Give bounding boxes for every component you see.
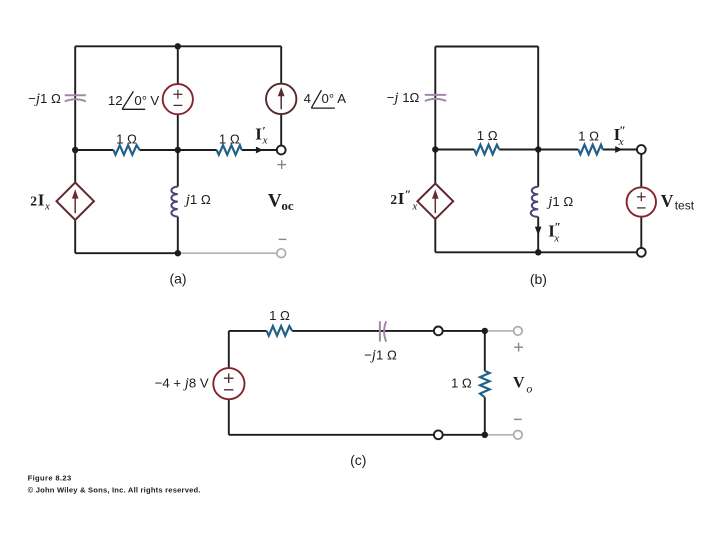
svg-text:1 Ω: 1 Ω — [451, 376, 472, 391]
label Ix'' below inductor (b) — [548, 219, 561, 244]
label j1 ohm (b) — [546, 194, 573, 210]
node dot mid middle (b) — [535, 146, 541, 152]
wire top row (c) — [229, 330, 485, 332]
wire middle vertical (b) — [535, 47, 542, 253]
label Ix' (a) — [255, 123, 267, 146]
terminal open circle top right (b) — [637, 145, 646, 154]
wire top (b) — [435, 46, 538, 48]
wire top (a) — [75, 45, 281, 47]
svg-text:x: x — [553, 232, 559, 244]
inductor j1 ohm (b) — [531, 187, 538, 217]
voltage source -4+j8 V (c) — [213, 368, 244, 399]
wire left vertical (b) — [434, 47, 436, 253]
terminal open circle bottom right (b) — [637, 248, 646, 257]
wire right vertical (a) — [280, 46, 282, 145]
node dot top right (c) — [482, 328, 488, 334]
label -4+j8 V (c) — [155, 376, 209, 392]
label Vtest (b) — [661, 191, 695, 213]
wire bottom gray (a) — [178, 252, 277, 254]
label Vo (c) — [513, 375, 532, 396]
inductor j1 ohm (a) — [171, 187, 177, 217]
resistor 1 ohm left (a) — [113, 145, 139, 155]
terminal node open circle (a) — [277, 146, 286, 155]
wire bottom (b) — [435, 251, 637, 253]
svg-text:© John Wiley & Sons, Inc. All: © John Wiley & Sons, Inc. All rights res… — [28, 485, 201, 494]
svg-text:−j 1Ω: −j 1Ω — [387, 90, 420, 106]
svg-text:4: 4 — [304, 91, 311, 106]
label 2Ix'' (b) — [390, 187, 417, 212]
wire left vertical (c) — [228, 331, 230, 435]
label 2Ix (a) — [30, 191, 50, 213]
node dot top middle (a) — [175, 43, 181, 49]
voltage source Vtest (b) — [627, 187, 656, 216]
svg-text:(b): (b) — [530, 271, 547, 287]
svg-text:″: ″ — [554, 219, 561, 233]
label -j1 ohm (c) — [364, 347, 397, 363]
current source 4/0 A (a) — [266, 84, 296, 114]
wire gray top right (c) — [485, 330, 514, 332]
wire gray bottom right (c) — [485, 434, 514, 436]
svg-text:2: 2 — [30, 194, 37, 209]
wire middle vertical (a) — [177, 46, 179, 253]
svg-text:0°: 0° — [322, 91, 335, 106]
svg-text:x: x — [262, 135, 268, 147]
capacitor -j1 ohm (a) — [65, 95, 86, 101]
wire middle row (b) — [435, 146, 637, 153]
svg-text:oc: oc — [281, 198, 294, 213]
label Voc (a) — [268, 191, 294, 214]
svg-text:−j1 Ω: −j1 Ω — [364, 347, 397, 363]
terminal open circle top (c) — [434, 327, 443, 336]
resistor 1 ohm right (b) — [578, 145, 602, 155]
resistor 1 ohm vertical (c) — [480, 371, 490, 397]
svg-text:A: A — [337, 91, 346, 106]
svg-text:test: test — [675, 199, 695, 213]
svg-text:1 Ω: 1 Ω — [578, 128, 599, 143]
label plus Vo (c) — [514, 343, 523, 352]
svg-text:I: I — [255, 125, 262, 144]
node dot mid left (b) — [432, 146, 438, 152]
wire middle row left (a) — [75, 149, 178, 151]
dependent source 2Ix diamond (a) — [57, 183, 94, 220]
wire bottom row (c) — [229, 434, 485, 436]
label (b) — [530, 271, 547, 287]
svg-text:−j1 Ω: −j1 Ω — [28, 91, 61, 107]
label 1 ohm left (a) — [116, 132, 137, 147]
wire right vertical (b) — [640, 154, 642, 248]
footer copyright — [28, 485, 201, 494]
node dot bottom middle (a) — [175, 250, 181, 256]
svg-text:x: x — [44, 200, 50, 212]
resistor 1 ohm left (b) — [474, 145, 499, 155]
label 1 ohm left (b) — [477, 128, 498, 143]
svg-text:V: V — [150, 93, 159, 108]
terminal gray circle top (c) — [514, 327, 523, 336]
node dot mid middle (a) — [175, 147, 181, 153]
capacitor -j 1ohm (b) — [425, 95, 446, 101]
svg-text:12: 12 — [108, 93, 123, 108]
svg-text:0°: 0° — [134, 93, 147, 108]
svg-text:(a): (a) — [169, 270, 186, 286]
label -j1 ohm (a) — [28, 91, 61, 107]
wire left vertical (a) — [74, 46, 76, 253]
resistor 1 ohm top (c) — [267, 326, 293, 336]
label -j 1ohm (b) — [387, 90, 420, 106]
footer figure number — [28, 474, 72, 483]
wire middle row right with arrow (a) — [178, 147, 277, 154]
label minus Voc (a) — [279, 238, 287, 240]
wire right vertical (c) — [484, 331, 486, 435]
svg-text:″: ″ — [619, 123, 626, 137]
terminal gray open circle (a) — [277, 249, 286, 258]
svg-text:I: I — [38, 191, 45, 210]
svg-text:o: o — [526, 382, 532, 396]
terminal gray circle bottom (c) — [514, 431, 523, 440]
label 1 ohm top (c) — [269, 308, 290, 323]
label (c) — [350, 452, 366, 468]
svg-text:1 Ω: 1 Ω — [477, 128, 498, 143]
svg-text:″: ″ — [405, 187, 412, 201]
svg-text:Figure 8.23: Figure 8.23 — [28, 474, 72, 483]
svg-text:1 Ω: 1 Ω — [219, 132, 240, 147]
label plus Voc (a) — [277, 160, 286, 169]
label j1 ohm (a) — [184, 192, 211, 208]
label Ix'' (b) — [614, 123, 626, 148]
label minus Vo (c) — [514, 418, 522, 420]
svg-text:V: V — [268, 191, 282, 212]
svg-text:x: x — [618, 136, 624, 148]
label 1 ohm vertical (c) — [451, 376, 472, 391]
dependent source 2Ix'' diamond (b) — [417, 184, 453, 220]
svg-text:j1 Ω: j1 Ω — [546, 194, 573, 210]
svg-text:1 Ω: 1 Ω — [269, 308, 290, 323]
svg-text:V: V — [513, 375, 525, 392]
label 4/0 A (a) — [304, 90, 347, 108]
svg-text:−4 + j8 V: −4 + j8 V — [155, 376, 209, 392]
svg-text:2: 2 — [390, 192, 397, 207]
label 1 ohm right (a) — [219, 132, 240, 147]
svg-text:x: x — [411, 200, 417, 212]
node dot bottom right (c) — [482, 432, 488, 438]
wire bottom black (a) — [75, 252, 178, 254]
voltage source 12/0 V (a) — [163, 84, 193, 114]
svg-text:(c): (c) — [350, 452, 366, 468]
label 12/0 V (a) — [108, 91, 159, 109]
node dot mid left (a) — [72, 147, 78, 153]
node dot bottom middle (b) — [535, 249, 541, 255]
capacitor -j1 ohm (c) — [380, 321, 386, 341]
svg-text:V: V — [661, 191, 674, 211]
label 1 ohm right (b) — [578, 128, 599, 143]
resistor 1 ohm right (a) — [217, 145, 242, 155]
svg-text:1 Ω: 1 Ω — [116, 132, 137, 147]
svg-text:j1 Ω: j1 Ω — [184, 192, 211, 208]
label (a) — [169, 270, 186, 286]
terminal open circle bottom (c) — [434, 430, 443, 439]
